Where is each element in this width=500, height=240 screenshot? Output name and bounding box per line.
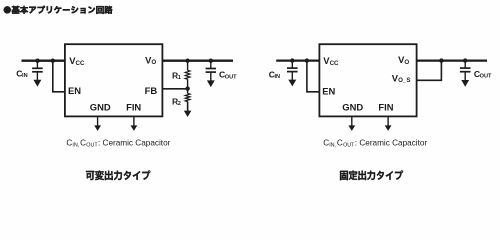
- node junction CIN/VCC: [35, 59, 39, 63]
- caption ceramic capacitor note (left): [66, 138, 170, 148]
- node junction CIN/VCC (right): [290, 58, 294, 62]
- pin label VCC (right U2): [323, 55, 339, 67]
- wire R1 top stem: [187, 61, 189, 71]
- IC U2 regulator box (right, fixed output): [319, 44, 416, 116]
- svg-text:O: O: [404, 59, 409, 66]
- title 基本アプリケーション回路: [4, 6, 113, 14]
- resistor R2: [185, 93, 190, 101]
- node junction COUT (left): [209, 59, 213, 63]
- svg-text:: Ceramic Capacitor: : Ceramic Capacitor: [98, 138, 171, 147]
- label C_IN (left): [16, 68, 27, 79]
- ground (below C_IN left): [33, 72, 41, 87]
- svg-text:OUT: OUT: [86, 143, 98, 149]
- svg-text:IN: IN: [22, 73, 28, 79]
- node junction R1 top: [185, 59, 189, 63]
- ground (GND pin arrow, left): [94, 116, 101, 130]
- wire input (right circuit VCC rail): [276, 59, 319, 61]
- svg-text:O_S: O_S: [398, 77, 410, 84]
- svg-text:C: C: [80, 138, 86, 147]
- svg-text:EN: EN: [322, 86, 335, 97]
- IC U1 regulator box (left, variable output): [65, 44, 162, 116]
- label C_IN (right): [269, 69, 280, 80]
- wire EN branch (left): [53, 61, 65, 92]
- ground (GND pin arrow, right): [348, 116, 355, 130]
- label C_OUT (right): [474, 69, 492, 80]
- node junction EN branch: [51, 59, 55, 63]
- svg-text:2: 2: [178, 101, 181, 107]
- node junction COUT (right): [463, 58, 467, 62]
- svg-text:FB: FB: [145, 85, 158, 96]
- svg-text:CC: CC: [330, 60, 339, 67]
- svg-text:OUT: OUT: [225, 75, 237, 81]
- svg-text:EN: EN: [68, 85, 81, 96]
- svg-text:1: 1: [178, 75, 181, 81]
- pin label VO (right U2): [398, 54, 409, 66]
- wire VO output rail (right): [417, 59, 487, 61]
- caption 可変出力タイプ (variable output type): [86, 170, 150, 180]
- node junction EN branch (right): [305, 58, 309, 62]
- pin label VCC (left U1): [69, 55, 85, 67]
- wire EN branch (right): [307, 61, 320, 92]
- label R2: [172, 96, 181, 107]
- wire FB feedback: [162, 88, 187, 90]
- ground (below R2): [187, 102, 189, 112]
- svg-text:C: C: [337, 138, 343, 147]
- ground (FIN pin arrow, right): [385, 116, 392, 130]
- caption ceramic capacitor note (right): [323, 138, 427, 148]
- wire R2 top stem: [187, 89, 189, 94]
- svg-text:IN: IN: [274, 74, 280, 80]
- svg-text:OUT: OUT: [480, 74, 492, 80]
- capacitor C_OUT (left): [206, 61, 216, 72]
- svg-text:O: O: [151, 59, 156, 66]
- node junction VO_S tie: [439, 58, 443, 62]
- svg-text:OUT: OUT: [343, 143, 355, 149]
- svg-text:GND: GND: [342, 102, 363, 113]
- ground (below C_OUT right): [461, 72, 469, 87]
- wire input (left circuit VCC rail): [22, 60, 65, 62]
- pin label VO (left U1): [145, 54, 156, 66]
- label R1: [172, 70, 181, 81]
- caption 固定出力タイプ (fixed output type): [340, 170, 403, 180]
- svg-text:FIN: FIN: [126, 102, 141, 113]
- capacitor C_OUT (right): [460, 61, 471, 72]
- wire VO output rail (left): [162, 60, 233, 62]
- capacitor C_IN (left): [32, 61, 43, 72]
- resistor R1: [185, 70, 190, 79]
- label C_OUT (left): [219, 70, 237, 81]
- svg-text:: Ceramic Capacitor: : Ceramic Capacitor: [355, 138, 428, 147]
- pin label VO_S (right U2): [392, 72, 411, 84]
- svg-text:CC: CC: [75, 60, 84, 67]
- svg-text:FIN: FIN: [378, 102, 393, 113]
- wire VO_S sense connection: [417, 61, 442, 81]
- ground (below C_IN right): [288, 72, 296, 87]
- svg-text:GND: GND: [90, 102, 111, 113]
- wire R1 bottom stem: [187, 79, 189, 88]
- node junction FB/R1/R2: [185, 86, 189, 90]
- ground (FIN pin arrow, left): [131, 116, 138, 130]
- capacitor C_IN (right): [287, 61, 298, 72]
- ground (below C_OUT left): [207, 72, 215, 87]
